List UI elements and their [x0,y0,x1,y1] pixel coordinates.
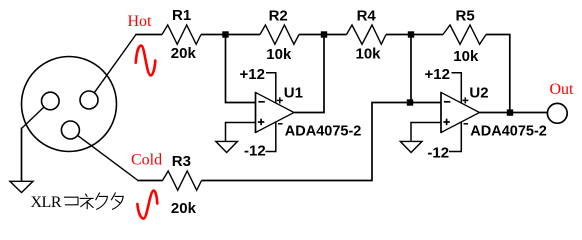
svg-text:Out: Out [550,81,575,98]
U1 ground wire [226,123,256,142]
U2 ground wire [411,123,441,142]
wire R4 to R5 [386,34,443,36]
svg-text:U1: U1 [284,84,303,101]
wire U2 output to terminal [480,112,548,114]
svg-text:R2: R2 [269,7,288,24]
XLR connector shell [22,57,117,152]
resistor R2 [260,25,299,44]
U2 inverting input mark [444,101,450,103]
svg-text:+12: +12 [240,66,265,83]
wire R5 to feedback corner of U2 [486,35,510,113]
wire U1 output and feedback up to node B [294,35,324,113]
XLR pin 3 (cold) [61,121,79,139]
node junction C [408,31,414,37]
svg-text:10k: 10k [453,48,479,65]
U1 -12 supply stub [266,122,276,152]
node junction D (U2 inverting node) [407,99,413,105]
label コネクタ (katakana drawn) [65,193,124,209]
U2 V+ pin mark [462,97,468,103]
U2 -12 supply stub [449,122,461,152]
katakana ne [86,194,87,196]
U1 V- pin mark [278,123,283,125]
resistor R3 [163,171,202,190]
XLR pin 1 (gnd) [42,92,60,110]
svg-text:+12: +12 [425,66,450,83]
svg-text:ADA4075-2: ADA4075-2 [470,124,547,140]
wire pin1 to ground [22,107,44,128]
cold signal sine [137,191,157,219]
svg-text:-12: -12 [427,144,449,161]
svg-text:ADA4075-2: ADA4075-2 [285,124,362,140]
node junction E (output node) [507,109,513,115]
U2 +12 supply stub [452,73,462,103]
U2 V- pin mark [464,123,469,125]
ground (XLR) [10,181,33,192]
XLR pin 2 (hot) [80,91,98,109]
katakana ko [65,197,79,205]
svg-text:Cold: Cold [131,152,162,169]
svg-text:R5: R5 [456,7,475,24]
op-amp U1 body [255,92,257,133]
svg-text:20k: 20k [171,45,197,62]
ground (U1) [216,141,238,152]
svg-text:U2: U2 [469,84,488,101]
resistor R5 [443,25,486,44]
wire R2 to R4 [299,34,347,36]
svg-text:Hot: Hot [128,13,153,30]
output terminal [547,103,567,123]
U1 non-inverting input mark [258,119,264,126]
wire pin2 to hot corner [94,35,136,93]
U1 V+ pin mark [277,97,283,103]
svg-text:10k: 10k [266,46,292,63]
node junction A [222,31,228,37]
svg-text:R3: R3 [172,153,191,170]
resistor R4 [347,25,387,44]
U1 inverting input mark [258,101,264,103]
svg-text:R1: R1 [172,7,191,24]
svg-text:R4: R4 [357,7,377,24]
wire R1 to R2 [201,34,260,36]
wire pin3 to cold corner [78,135,138,180]
U2 non-inverting input mark [443,119,449,126]
svg-text:XLR: XLR [31,194,62,211]
wire R3 to U2 inverting input [202,103,442,181]
ground (U2) [400,141,422,152]
katakana ta [112,193,116,200]
svg-text:-12: -12 [244,143,266,160]
op-amp U2 body [440,92,442,133]
U1 +12 supply stub [266,73,276,103]
wire node C down to U2 inverting node [410,35,412,103]
wire node A down to U1 inverting input [226,35,256,103]
katakana ku [96,193,100,200]
node junction B [321,31,327,37]
svg-text:10k: 10k [356,46,382,63]
svg-text:20k: 20k [171,200,197,217]
resistor R1 [162,25,201,44]
hot signal sine [136,46,156,76]
